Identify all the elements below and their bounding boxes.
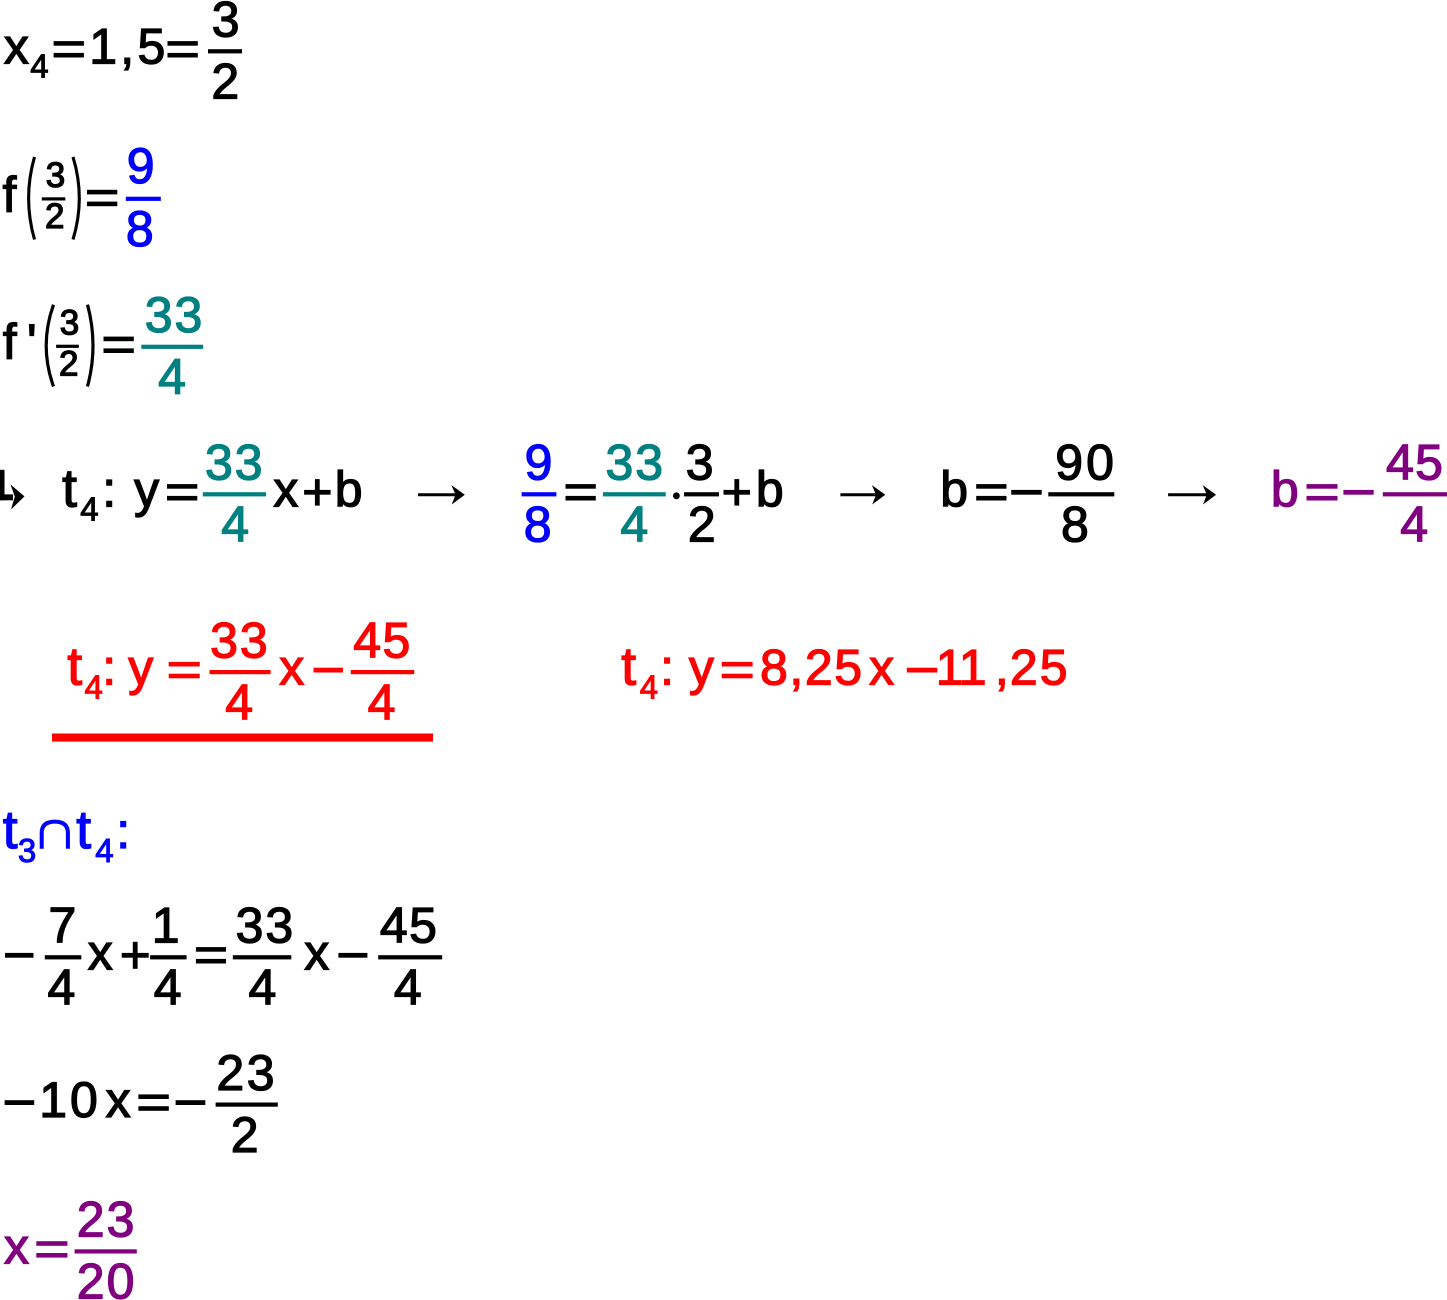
svg-text:4: 4 — [221, 497, 249, 553]
line1 equals 2 — [168, 41, 198, 46]
svg-text:3: 3 — [18, 832, 36, 869]
line3 fraction 33/4 teal — [141, 345, 203, 349]
svg-text:b: b — [940, 462, 968, 518]
line2 left paren — [29, 157, 35, 240]
svg-text:23: 23 — [216, 1045, 277, 1101]
svg-text:20: 20 — [77, 1254, 137, 1300]
svg-text:33: 33 — [236, 898, 296, 954]
line4 equals 2 — [566, 484, 596, 489]
line7 fraction 7/4 — [45, 955, 82, 959]
line4 minus purple — [1343, 490, 1373, 495]
svg-text:x: x — [4, 1219, 29, 1275]
svg-text:8: 8 — [1061, 497, 1089, 553]
line7 minus 2 — [338, 953, 367, 958]
line4 fraction 3/2 — [684, 492, 719, 496]
svg-text:4: 4 — [158, 349, 186, 405]
line4 corner arrow — [0, 470, 5, 501]
svg-text:x: x — [869, 639, 894, 695]
svg-text:x: x — [4, 19, 29, 75]
line4 fraction 90/8 — [1048, 492, 1114, 496]
svg-text:4: 4 — [394, 960, 422, 1016]
svg-text:4: 4 — [640, 668, 658, 705]
line4 fraction 45/4 purple — [1383, 492, 1447, 496]
line4 equals 1 — [167, 484, 197, 489]
line9 fraction 23/20 — [75, 1249, 137, 1253]
svg-text:8,25: 8,25 — [760, 639, 864, 695]
svg-text:8: 8 — [524, 497, 552, 553]
line4 arrow 3 — [1168, 493, 1207, 496]
line8 minus 2 — [176, 1100, 206, 1105]
line3 equals — [104, 337, 134, 342]
svg-text:4: 4 — [30, 48, 48, 85]
svg-text:4: 4 — [368, 674, 396, 730]
svg-text:1: 1 — [152, 898, 180, 954]
svg-text:2: 2 — [211, 54, 239, 110]
line5b equals — [722, 662, 753, 667]
svg-text:4: 4 — [620, 497, 648, 553]
svg-text:2: 2 — [688, 497, 716, 553]
line5 minus — [314, 668, 344, 673]
line9 equals — [36, 1241, 67, 1246]
svg-text:33: 33 — [606, 435, 666, 491]
svg-text:4: 4 — [95, 832, 113, 869]
svg-text:x: x — [88, 925, 113, 981]
svg-text:,: , — [995, 639, 1009, 695]
line7 plus — [122, 953, 149, 958]
svg-text:4: 4 — [80, 491, 98, 528]
svg-text:b: b — [335, 462, 363, 518]
svg-text:8: 8 — [126, 201, 154, 257]
line5 fraction 45/4 — [351, 670, 414, 674]
line7 minus 1 — [5, 953, 34, 958]
svg-text:4: 4 — [1400, 497, 1428, 553]
svg-text:b: b — [1271, 462, 1299, 518]
line4 equals purple — [1307, 484, 1338, 489]
svg-text:x: x — [279, 639, 304, 695]
svg-text:23: 23 — [77, 1192, 137, 1248]
svg-text:3: 3 — [686, 435, 714, 491]
line4 minus — [1011, 490, 1041, 495]
svg-text:33: 33 — [145, 287, 205, 343]
svg-text:f: f — [3, 167, 17, 223]
line3 right paren — [88, 305, 94, 387]
line4 multiplication dot — [673, 492, 680, 499]
svg-text:45: 45 — [380, 898, 438, 954]
svg-text:t: t — [76, 801, 91, 860]
svg-text::: : — [102, 639, 116, 695]
svg-text:4: 4 — [85, 668, 103, 705]
line5 fraction 33/4 — [210, 670, 271, 674]
svg-text:2: 2 — [231, 1107, 259, 1163]
line1 fraction 3/2 — [208, 49, 242, 53]
svg-text:3: 3 — [60, 303, 79, 342]
svg-text:4: 4 — [249, 960, 277, 1016]
svg-text:t: t — [67, 637, 82, 696]
svg-text:9: 9 — [127, 138, 155, 194]
line4 fraction 9/8 blue — [522, 492, 557, 496]
line2 equals — [87, 190, 117, 195]
svg-text:x: x — [273, 462, 298, 518]
line4 arrow 2 — [840, 493, 876, 496]
line4 plus 2 — [724, 490, 751, 495]
svg-text:4: 4 — [48, 960, 76, 1016]
svg-text:': ' — [27, 314, 37, 370]
svg-text:,: , — [120, 19, 134, 75]
svg-text:45: 45 — [1386, 435, 1444, 491]
svg-text:45: 45 — [353, 612, 411, 668]
line3 left paren — [46, 305, 53, 387]
svg-text::: : — [102, 462, 116, 518]
svg-text:33: 33 — [205, 435, 265, 491]
line5 equals — [169, 662, 200, 667]
svg-text:33: 33 — [210, 612, 270, 668]
svg-text:y: y — [689, 639, 714, 695]
svg-text:1: 1 — [89, 19, 117, 75]
svg-text:1: 1 — [959, 639, 987, 695]
line4 arrow 1 — [418, 493, 456, 496]
svg-text:f: f — [3, 314, 17, 370]
line7 fraction 45/4 — [378, 955, 442, 959]
svg-text:2: 2 — [45, 197, 64, 236]
svg-text:5: 5 — [138, 19, 166, 75]
svg-text:2: 2 — [59, 344, 78, 383]
svg-text:b: b — [756, 462, 784, 518]
svg-text:1: 1 — [39, 1072, 67, 1128]
line8 minus 1 — [5, 1100, 35, 1105]
line8 equals — [138, 1094, 168, 1099]
svg-text:7: 7 — [49, 898, 77, 954]
line2 fraction 9/8 blue — [126, 197, 161, 201]
line4 equals 3 — [976, 484, 1006, 489]
svg-text:3: 3 — [212, 0, 240, 48]
svg-text:t: t — [3, 801, 18, 860]
svg-text:y: y — [134, 462, 159, 518]
svg-text:t: t — [62, 460, 77, 519]
line5b minus — [907, 668, 938, 673]
svg-text::: : — [116, 803, 130, 859]
line4 plus 1 — [304, 490, 331, 495]
svg-text:y: y — [128, 639, 153, 695]
svg-text:x: x — [106, 1072, 131, 1128]
line4 fraction 33/4 teal 2 — [603, 492, 666, 496]
svg-text:4: 4 — [225, 674, 253, 730]
svg-text:3: 3 — [46, 156, 65, 195]
line5 red underline — [52, 734, 433, 742]
line6 intersection symbol — [42, 822, 68, 849]
svg-text:25: 25 — [1010, 639, 1070, 695]
line4 fraction 33/4 teal — [203, 492, 266, 496]
line3 small fraction 3/2 — [56, 345, 79, 348]
svg-text::: : — [660, 639, 674, 695]
line2 right paren — [73, 157, 79, 240]
line2 small fraction 3/2 — [42, 197, 66, 200]
svg-text:x: x — [304, 925, 329, 981]
line1 equals 1 — [54, 41, 84, 46]
svg-text:t: t — [621, 637, 636, 696]
line7 equals — [196, 947, 226, 952]
line7 fraction 1/4 — [150, 955, 187, 959]
line7 fraction 33/4 — [233, 955, 291, 959]
svg-text:4: 4 — [154, 960, 182, 1016]
svg-text:9: 9 — [525, 435, 553, 491]
svg-text:0: 0 — [70, 1072, 98, 1128]
svg-text:90: 90 — [1055, 435, 1117, 491]
line8 fraction 23/2 — [216, 1103, 278, 1107]
